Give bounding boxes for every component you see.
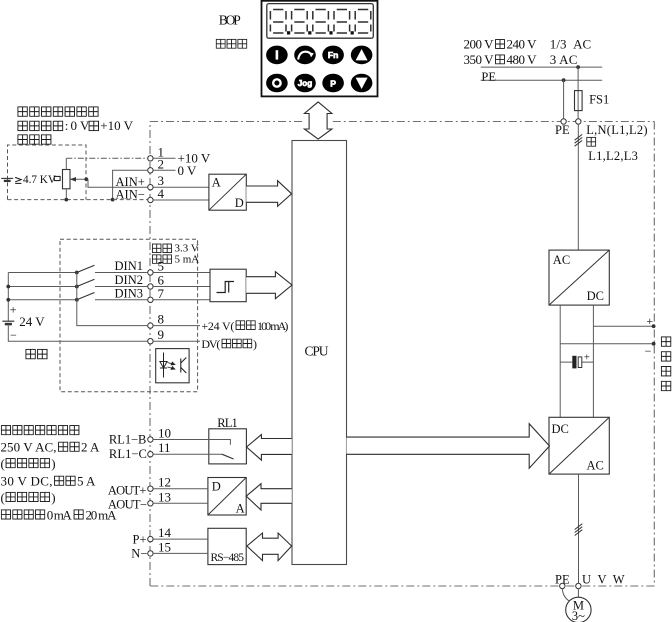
svg-text:0 mA: 0 mA <box>47 507 73 522</box>
wire terminal 2 stub right <box>153 169 175 171</box>
svg-text:RL1: RL1 <box>217 416 238 430</box>
svg-text:P+: P+ <box>133 533 147 547</box>
svg-text:U: U <box>582 572 591 586</box>
wire terminal 3 to A/D <box>153 186 209 188</box>
BOP display decimal dots <box>287 31 354 34</box>
schmitt trigger U-ST box <box>210 269 246 302</box>
svg-text:14: 14 <box>158 525 172 540</box>
svg-text:+: + <box>584 353 590 364</box>
svg-text:D: D <box>212 479 221 493</box>
terminal L,N (top, on enclosure) <box>576 119 581 124</box>
terminal PE (bottom, on enclosure) <box>560 583 565 588</box>
D/A converter U-DA <box>208 478 246 516</box>
svg-text:DC: DC <box>587 289 604 303</box>
wire terminal 6 to schmitt trigger <box>153 286 210 288</box>
BOP button Jog <box>294 74 316 93</box>
svg-text:D: D <box>235 196 244 210</box>
wire terminal 9 stub right <box>153 340 200 342</box>
wire inverter output to U terminal <box>578 474 580 583</box>
wire DC link - to border <box>560 343 653 345</box>
BOP button down arrow <box>351 74 373 93</box>
wire battery+ vertical feed <box>7 273 9 322</box>
wire row DIN1 left <box>8 272 77 274</box>
svg-text:11: 11 <box>158 440 171 455</box>
svg-text:250 V AC,: 250 V AC, <box>1 440 57 455</box>
svg-text:FS1: FS1 <box>589 93 609 107</box>
junction pot bottom <box>64 198 68 202</box>
label 输入电压: 0 V到+10 V <box>18 118 134 133</box>
label +24 V(最大100 mA) <box>201 319 288 333</box>
terminal U (bottom, on enclosure) <box>576 583 581 588</box>
terminal 9 <box>148 327 164 344</box>
wire terminal 11 to relay blade <box>153 453 222 455</box>
wire PE drop to enclosure <box>563 80 565 119</box>
wire AIN- dashed rail to terminal 4 <box>8 199 148 201</box>
BOP button Fn <box>322 46 344 65</box>
wire DC bus right <box>592 305 594 417</box>
junction wiper node <box>84 177 88 181</box>
svg-text:+10 V: +10 V <box>100 118 133 133</box>
svg-text:L,N(L1,L2): L,N(L1,L2) <box>586 123 647 137</box>
wire terminal 12 to D/A <box>153 488 208 490</box>
arrow CPU to RL1 <box>247 435 292 461</box>
label 操作板 (operator panel) <box>216 39 247 48</box>
potentiometer wiper arrow <box>70 178 88 180</box>
svg-text:W: W <box>613 572 625 586</box>
wire terminal 7 to schmitt trigger <box>153 299 210 301</box>
potentiometer R (4.7k) <box>63 170 71 189</box>
svg-text:RL1−B: RL1−B <box>109 433 146 447</box>
svg-text:DC: DC <box>552 422 569 436</box>
svg-text:10: 10 <box>158 426 171 441</box>
BOP button O (stop) <box>266 74 288 93</box>
wire terminal 1 stub right <box>153 157 175 159</box>
node DC link + <box>652 324 656 328</box>
svg-text:−: − <box>10 328 17 342</box>
label 输出继电器触头 (output relay contacts) <box>1 426 79 435</box>
svg-text:PE: PE <box>555 123 570 137</box>
svg-text:(: ( <box>1 456 5 471</box>
RS-485 interface U-RS box <box>208 528 246 564</box>
svg-text:): ) <box>253 337 257 351</box>
wire battery- to terminal 9 <box>8 324 147 341</box>
svg-text:350 V: 350 V <box>464 52 495 67</box>
terminal 12 <box>148 475 171 492</box>
double arrow RS-485 to CPU <box>247 533 292 561</box>
svg-text:24 V: 24 V <box>19 314 45 329</box>
inverter enclosure dash-dot border <box>150 122 654 587</box>
label 或 (or) <box>587 137 596 146</box>
svg-text:480 V: 480 V <box>507 52 538 67</box>
svg-text:200 V: 200 V <box>464 36 495 51</box>
terminal 13 <box>148 489 171 506</box>
BOP display digit 5 <box>355 10 371 34</box>
switch DIN1 <box>75 265 148 274</box>
label 电源和模拟输入 (power and analog input) <box>18 107 98 116</box>
BOP button I (start) <box>266 46 288 65</box>
junction mains L <box>576 65 580 69</box>
junction DIN2 feed <box>6 285 10 289</box>
BOP display digit 2 <box>292 10 308 34</box>
svg-text:0 V: 0 V <box>178 163 198 178</box>
multi-conductor slashes (motor) <box>575 524 583 536</box>
svg-text:AC: AC <box>587 458 604 472</box>
terminal 6 <box>148 273 165 290</box>
svg-text:5 mA: 5 mA <box>175 253 200 265</box>
svg-text:12: 12 <box>158 475 171 490</box>
svg-text:DV(: DV( <box>201 337 220 351</box>
svg-text:Fn: Fn <box>328 50 339 60</box>
wire terminal 8 stub right <box>153 325 200 327</box>
svg-text:0 V: 0 V <box>71 118 91 133</box>
inverter U-DCAC (DC/AC) <box>549 417 609 474</box>
capacitor C-link leads <box>560 361 593 363</box>
svg-text:CPU: CPU <box>305 344 329 359</box>
wire switch common down to terminal 8 <box>77 273 148 326</box>
battery cell symbol (left) <box>1 177 13 179</box>
svg-text:9: 9 <box>158 327 165 342</box>
terminal 1 <box>148 144 164 161</box>
terminal 5 <box>148 259 164 276</box>
label DV(隔离的) <box>201 337 257 351</box>
svg-text:−: − <box>645 344 652 358</box>
terminal PE (top, on enclosure) <box>561 119 566 124</box>
label (感性负载) (inductive load) <box>1 456 56 471</box>
svg-text:P: P <box>330 78 336 88</box>
junction DIN3 feed <box>6 298 10 302</box>
BOP button P <box>322 74 344 93</box>
svg-text:2 A: 2 A <box>81 440 100 455</box>
svg-text:): ) <box>51 456 55 471</box>
svg-text:240 V: 240 V <box>507 36 538 51</box>
svg-text:PE: PE <box>481 70 496 84</box>
svg-text:AC: AC <box>553 253 570 267</box>
terminal 10 <box>148 426 171 443</box>
label 30 V DC,最大5 A <box>1 474 97 489</box>
svg-text:RS−485: RS−485 <box>211 552 245 564</box>
svg-text::: : <box>65 118 69 133</box>
label 200 V至240 V <box>464 36 538 51</box>
BOP 7-segment display frame <box>267 4 374 39</box>
svg-text:3~: 3~ <box>572 609 585 622</box>
svg-text:1/3 AC: 1/3 AC <box>550 36 591 51</box>
BOP button up arrow <box>351 46 373 65</box>
label 模拟输出0 mA到20 mA <box>1 507 117 522</box>
svg-text:30 V DC,: 30 V DC, <box>1 474 53 489</box>
wire U to motor <box>577 589 579 598</box>
wire pot bottom to rail <box>65 189 67 200</box>
svg-text:AOUT+: AOUT+ <box>108 484 146 498</box>
wire L drop through fuse <box>577 67 579 119</box>
svg-text:V: V <box>598 572 607 586</box>
arrow CPU to D/A <box>246 484 292 510</box>
svg-text:(: ( <box>1 490 5 505</box>
svg-text:3 AC: 3 AC <box>550 52 578 67</box>
svg-text:A: A <box>236 502 245 516</box>
svg-text:+24 V(: +24 V( <box>201 319 234 333</box>
BOP display digit 3 <box>313 10 329 34</box>
wire DC bus left <box>559 305 561 417</box>
BOP display digit 1 <box>270 10 286 34</box>
wire mains line PE <box>481 79 603 81</box>
wire row DIN3 left <box>8 299 77 301</box>
rectifier U-ACDC (AC/DC) <box>549 250 609 305</box>
wire row DIN2 left <box>8 286 77 288</box>
analog source dashed box <box>8 145 87 200</box>
terminal 11 <box>148 440 171 457</box>
wire mains into rectifier <box>577 124 579 250</box>
digital input dashed box <box>60 239 198 391</box>
motor M 3~ <box>566 597 591 622</box>
BOP display digit 4 <box>334 10 350 34</box>
label (阻性负载) (resistive load) <box>1 490 56 505</box>
svg-text:N−: N− <box>131 547 147 561</box>
svg-text:4: 4 <box>158 186 165 201</box>
svg-text:Jog: Jog <box>298 79 313 88</box>
A/D converter U-AD <box>209 174 246 210</box>
arrow A/D to CPU <box>246 181 291 207</box>
label 电源 (power supply) <box>26 349 47 358</box>
label 350 V至480 V <box>464 52 538 67</box>
BOP operator panel outer box <box>262 1 378 97</box>
BOP to CPU double arrow <box>304 102 332 139</box>
label 最大 5 mA <box>152 253 199 265</box>
terminal 4 <box>148 186 165 203</box>
wire pot top to terminal 1 (+10 V), dash-dot <box>65 158 67 169</box>
label 可标定 (calibratable) <box>18 135 51 144</box>
svg-text:4.7 KV: 4.7 KV <box>23 174 56 186</box>
wire terminal 10 to relay fixed contact <box>153 440 230 445</box>
svg-text:7: 7 <box>158 286 165 301</box>
wire PE to motor <box>562 589 570 602</box>
svg-text:15: 15 <box>158 539 171 554</box>
junction 0V to AIN- rail <box>111 198 115 202</box>
svg-text:A: A <box>212 176 221 190</box>
label 直流回路 (DC link), vertical <box>661 337 670 391</box>
svg-text:L1,L2,L3: L1,L2,L3 <box>588 149 638 163</box>
junction mains PE <box>562 78 566 82</box>
wire terminal 5 to schmitt trigger <box>153 272 210 274</box>
wire terminal 13 to D/A <box>153 502 208 504</box>
terminal 2 <box>148 156 164 173</box>
arrow schmitt to CPU <box>246 272 292 299</box>
wire terminal 4 to A/D <box>153 199 209 201</box>
svg-text:AOUT−: AOUT− <box>108 497 147 511</box>
svg-text:+: + <box>10 303 17 317</box>
CPU block <box>292 141 347 565</box>
optocoupler phototransistor <box>181 358 187 374</box>
terminal 14 <box>148 525 172 542</box>
svg-text:8: 8 <box>158 312 165 327</box>
wire terminal 15 to RS-485 <box>153 552 208 554</box>
terminal 3 <box>148 173 164 190</box>
wire wiper down to AIN+ row 3 <box>88 179 148 187</box>
optocoupler LED <box>160 353 167 378</box>
terminal 7 <box>148 286 165 303</box>
svg-text:DIN3: DIN3 <box>115 287 143 301</box>
terminal 8 <box>148 312 164 329</box>
wire terminal 14 to RS-485 <box>153 538 208 540</box>
svg-text:+: + <box>646 314 653 328</box>
multi-conductor slashes (mains) <box>575 134 583 146</box>
switch DIN3 <box>75 293 148 302</box>
fuse FS1 <box>575 91 583 111</box>
svg-text:5 A: 5 A <box>77 474 96 489</box>
battery 24 V plates <box>2 320 14 322</box>
relay contact blade <box>222 454 234 459</box>
svg-text:DIN2: DIN2 <box>115 273 143 287</box>
value label >=4.7 KV <box>15 174 60 186</box>
svg-text:BOP: BOP <box>219 13 241 28</box>
relay RL1 box <box>209 429 247 464</box>
label 250 V AC,最大2 A <box>1 440 101 455</box>
optocoupler U-OPT box <box>156 349 189 383</box>
label 最大 3.3 V <box>152 243 198 255</box>
node DC link - <box>652 342 656 346</box>
svg-text:): ) <box>51 490 55 505</box>
svg-text:100 mA): 100 mA) <box>257 319 288 333</box>
wire terminal 2 (0 V) left and down to AIN- rail <box>113 170 148 199</box>
svg-text:DIN1: DIN1 <box>115 259 143 273</box>
wire mains line L <box>481 66 603 68</box>
switch DIN2 <box>75 279 148 288</box>
capacitor C-link plates <box>572 356 576 369</box>
optocoupler light arrows <box>168 362 175 369</box>
arrow CPU to inverter <box>347 424 550 469</box>
BOP button reverse (curved arrow) <box>294 46 316 65</box>
terminal 15 <box>148 539 171 556</box>
svg-text:13: 13 <box>158 489 171 504</box>
svg-text:RL1−C: RL1−C <box>109 447 147 461</box>
wire DC link + to border <box>593 325 653 327</box>
